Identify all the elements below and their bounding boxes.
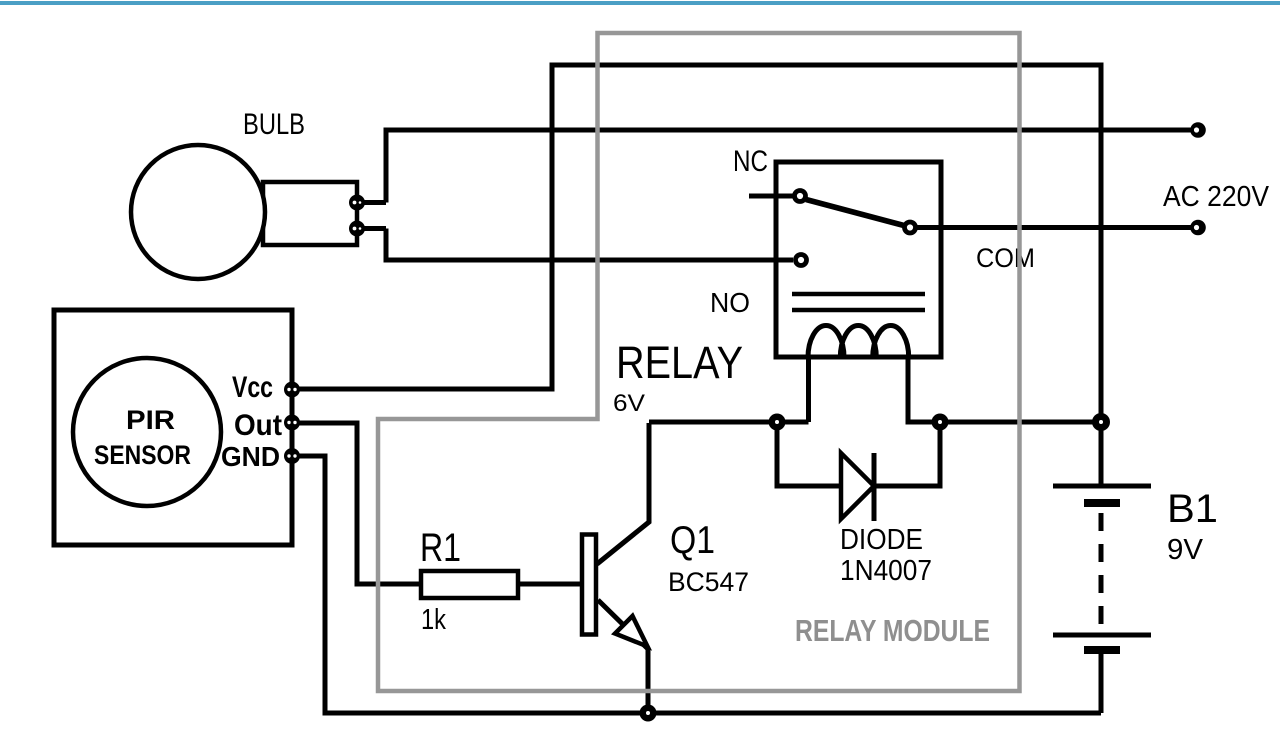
svg-text:DIODE: DIODE bbox=[840, 524, 923, 556]
svg-text:AC 220V: AC 220V bbox=[1163, 181, 1270, 213]
svg-text:Vcc: Vcc bbox=[232, 371, 273, 404]
svg-text:NC: NC bbox=[733, 145, 768, 178]
svg-text:1k: 1k bbox=[421, 604, 446, 636]
svg-text:B1: B1 bbox=[1167, 487, 1218, 531]
svg-text:Out: Out bbox=[234, 409, 282, 442]
svg-text:1N4007: 1N4007 bbox=[840, 555, 932, 587]
svg-text:PIR: PIR bbox=[126, 405, 175, 435]
svg-text:RELAY MODULE: RELAY MODULE bbox=[795, 613, 990, 648]
svg-text:6V: 6V bbox=[613, 390, 645, 417]
svg-text:COM: COM bbox=[976, 243, 1035, 273]
svg-text:BULB: BULB bbox=[243, 108, 305, 141]
svg-text:RELAY: RELAY bbox=[616, 337, 743, 388]
svg-text:GND: GND bbox=[221, 441, 280, 472]
svg-text:NO: NO bbox=[710, 287, 750, 318]
svg-text:Q1: Q1 bbox=[670, 519, 715, 562]
svg-text:SENSOR: SENSOR bbox=[94, 440, 191, 470]
svg-text:R1: R1 bbox=[420, 526, 461, 570]
svg-text:9V: 9V bbox=[1167, 534, 1204, 566]
svg-text:BC547: BC547 bbox=[668, 567, 749, 597]
